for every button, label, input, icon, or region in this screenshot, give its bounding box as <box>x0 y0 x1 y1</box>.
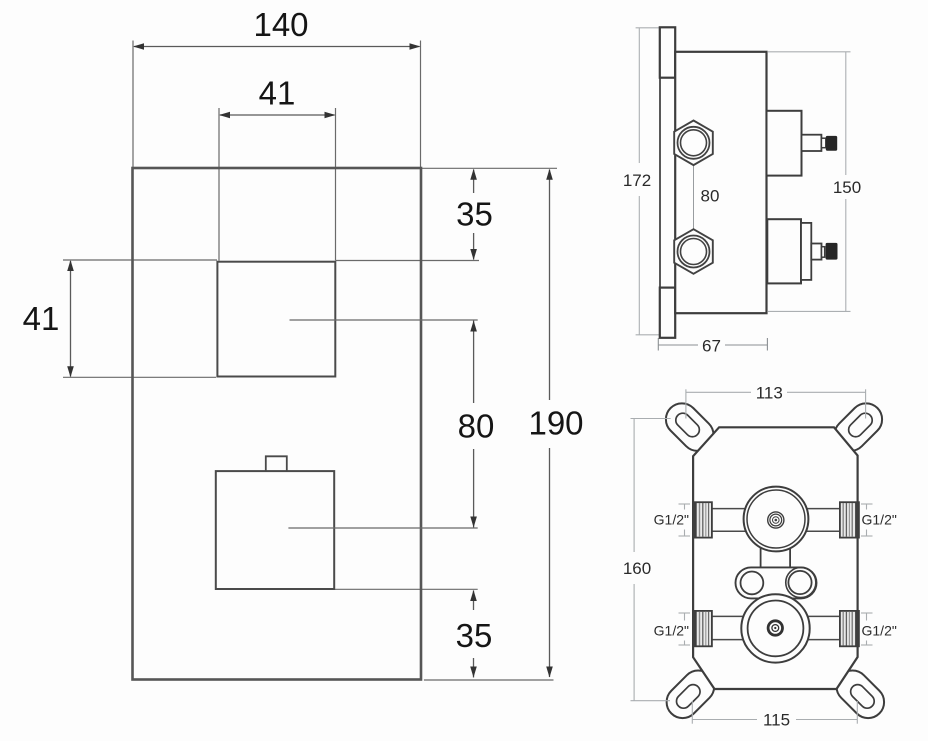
dim 41 left extension line top <box>63 259 217 261</box>
lower square knob <box>216 471 334 589</box>
dim 35 top arrow down <box>470 249 477 260</box>
svg-text:41: 41 <box>259 75 296 112</box>
mounting ear top-right <box>828 397 889 458</box>
front plate outline <box>133 168 422 680</box>
dim 140 arrow left <box>133 43 144 50</box>
lower square knob tab <box>266 456 287 471</box>
svg-text:80: 80 <box>458 408 495 445</box>
thermostat centre ring 3 <box>773 517 780 524</box>
upper hex nut <box>674 121 713 166</box>
thermostat centre ring 1 <box>768 512 784 528</box>
svg-text:172: 172 <box>623 171 651 190</box>
bracket right hole <box>788 571 811 594</box>
upper-right knurled port <box>840 502 859 537</box>
upper handle black knob <box>826 136 837 151</box>
dim 67 tick left <box>657 338 659 351</box>
dim 150 line upper <box>845 52 847 175</box>
dim 150 line lower <box>845 199 847 311</box>
lower handle neck <box>822 247 825 258</box>
upper port pipe left <box>712 508 747 510</box>
wall plate top tab <box>660 27 675 77</box>
wall plate bottom tab <box>660 288 675 338</box>
svg-text:113: 113 <box>756 384 783 403</box>
dim 115 line right part <box>796 719 857 721</box>
dim 150 extension top <box>768 51 851 53</box>
dim 35 bottom line upper part <box>473 591 475 611</box>
bracket right ring <box>786 567 816 597</box>
dim 35 bottom arrow up <box>470 590 477 601</box>
valve body <box>675 52 766 313</box>
extension line rect top right <box>421 167 557 169</box>
svg-text:190: 190 <box>528 405 583 442</box>
thermostat circle inner <box>747 490 805 548</box>
svg-text:80: 80 <box>701 187 720 206</box>
connector circle-to-bracket right line <box>789 540 791 568</box>
dim 160 line lower <box>633 584 635 701</box>
extension line rect bottom right <box>424 679 554 681</box>
dim 41 top extension line right <box>335 108 337 261</box>
thermostat circle outer <box>744 487 809 552</box>
dim 115 extension right <box>856 701 858 724</box>
dim 80 line upper part <box>473 321 475 404</box>
dim 35 top line lower part <box>473 233 475 260</box>
lower handle black knob <box>826 243 838 260</box>
bracket left hole <box>741 572 764 595</box>
dim 160 extension bottom <box>631 700 671 702</box>
dim 190 line lower part <box>549 448 551 677</box>
dim 41 top line <box>220 114 335 116</box>
upper port pipe right <box>805 508 841 510</box>
lower hex nut <box>674 229 713 274</box>
dim 41 left line <box>70 261 72 377</box>
leader lower square centre <box>288 527 477 529</box>
dim 140 extension line left <box>132 41 134 168</box>
dim 115 extension left <box>691 701 693 724</box>
dim 140 line <box>134 46 420 48</box>
dim 113 line left part <box>686 391 751 393</box>
volume centre ring <box>768 621 782 635</box>
dim 67 line left part <box>658 344 698 346</box>
svg-text:G1/2": G1/2" <box>862 512 897 528</box>
wall plate left edge <box>659 27 661 338</box>
G1/2 bracket upper-left <box>679 504 691 536</box>
lower handle stem <box>811 244 821 260</box>
dim 67 line right part <box>725 344 767 346</box>
dim 172 line upper <box>638 28 640 163</box>
dim 115 line left part <box>692 719 757 721</box>
dim 113 extension left <box>685 389 687 418</box>
svg-text:G1/2": G1/2" <box>862 623 897 639</box>
dim 41 left extension line bottom <box>63 376 216 378</box>
centreline between inlets <box>693 143 695 252</box>
svg-text:G1/2": G1/2" <box>654 512 689 528</box>
upper handle box <box>767 111 802 176</box>
svg-text:115: 115 <box>763 711 790 730</box>
upper square knob <box>217 262 335 377</box>
dim 140 extension line right <box>420 41 422 168</box>
svg-text:41: 41 <box>23 300 60 337</box>
dim 80 line lower part <box>473 449 475 528</box>
G1/2 bracket lower-right <box>861 613 873 645</box>
svg-text:140: 140 <box>253 6 308 43</box>
dim 80 arrow up <box>470 321 477 332</box>
dim 35 bottom line lower part <box>473 658 475 678</box>
dim 150 extension bottom <box>768 310 851 312</box>
dim 35 top line upper part <box>473 170 475 194</box>
extension line upper square top right <box>336 260 479 262</box>
dim 172 extension bottom <box>636 334 660 336</box>
dim 140 arrow right <box>410 43 421 50</box>
dim 190 arrow up <box>546 169 553 180</box>
dim 190 arrow down <box>546 667 553 678</box>
lower handle step <box>801 223 811 280</box>
volume centre circle <box>772 625 779 632</box>
dim 113 line right part <box>787 391 866 393</box>
leader upper square centre <box>290 319 478 321</box>
volume centre dot <box>774 627 776 629</box>
dim 67 tick right <box>766 338 768 351</box>
upper handle stem <box>802 135 822 151</box>
dim 190 line upper part <box>549 170 551 401</box>
G1/2 bracket lower-left <box>679 613 691 645</box>
dim 35 top arrow up <box>470 169 477 180</box>
svg-text:G1/2": G1/2" <box>654 623 689 639</box>
svg-text:160: 160 <box>623 559 651 578</box>
dim 80 arrow down <box>470 517 477 528</box>
dim 160 extension top <box>631 418 671 420</box>
connector circle-to-bracket left line <box>760 540 762 568</box>
volume circle inner <box>748 601 804 657</box>
dim 172 line lower <box>638 196 640 335</box>
lower handle box <box>767 219 801 283</box>
svg-text:150: 150 <box>833 178 861 197</box>
mounting ear bottom-right <box>830 664 891 725</box>
svg-text:35: 35 <box>456 617 493 654</box>
upper handle neck <box>821 138 825 148</box>
dim 41 top arrow right <box>325 112 336 119</box>
G1/2 bracket upper-right <box>861 504 873 536</box>
upper-left knurled port <box>693 502 712 537</box>
thermostat centre ring 2 <box>770 514 782 526</box>
extension line lower square bottom right <box>334 588 478 590</box>
volume circle outer <box>741 594 809 662</box>
svg-text:67: 67 <box>702 337 721 356</box>
lower port pipe left <box>712 615 744 617</box>
dim 41 left arrow up <box>67 260 74 271</box>
mounting ear bottom-left <box>660 664 721 725</box>
bracket pill <box>736 567 817 598</box>
rough-in body octagon <box>693 427 858 689</box>
svg-text:35: 35 <box>456 196 493 233</box>
dim 35 bottom arrow down <box>470 667 477 678</box>
lower port pipe right <box>807 615 841 617</box>
lower-left knurled port <box>693 611 712 646</box>
lower-right knurled port <box>840 611 859 646</box>
mounting ear top-left <box>659 397 720 458</box>
dim 41 left arrow down <box>67 366 74 377</box>
dim 172 extension top <box>636 27 660 29</box>
dim 160 line upper <box>633 419 635 553</box>
dim 41 top extension line left <box>218 108 220 261</box>
dim 41 top arrow left <box>219 112 230 119</box>
thermostat centre dot <box>775 519 778 522</box>
dim 113 extension right <box>865 389 867 418</box>
